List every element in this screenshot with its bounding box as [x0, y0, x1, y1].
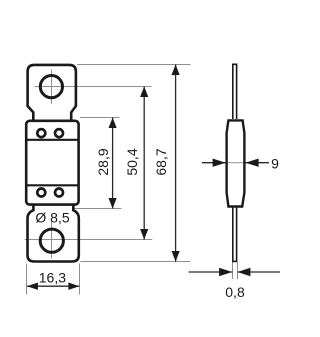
svg-text:0,8: 0,8 — [225, 284, 245, 300]
svg-text:Ø 8,5: Ø 8,5 — [35, 210, 69, 226]
svg-text:16,3: 16,3 — [39, 270, 66, 286]
svg-text:50,4: 50,4 — [124, 148, 140, 175]
svg-text:9: 9 — [271, 155, 279, 171]
svg-text:68,7: 68,7 — [153, 148, 169, 175]
svg-text:28,9: 28,9 — [95, 148, 111, 175]
